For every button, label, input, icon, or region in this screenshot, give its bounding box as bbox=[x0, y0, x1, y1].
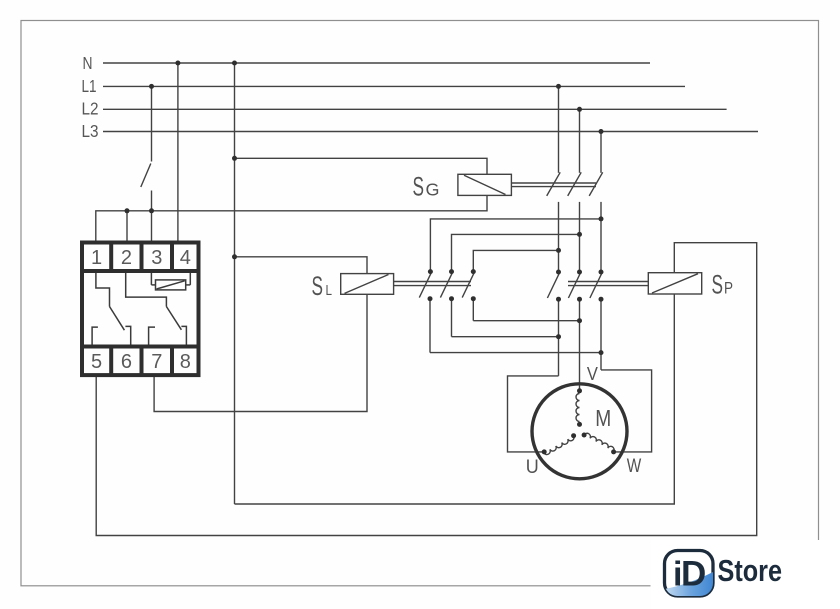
svg-text:U: U bbox=[526, 456, 539, 478]
svg-text:M: M bbox=[595, 405, 611, 431]
wire phase2 to SL contact 2 bbox=[452, 234, 580, 271]
relay contact B blade bbox=[166, 307, 181, 330]
logo background patch bbox=[651, 540, 840, 609]
svg-text:7: 7 bbox=[151, 351, 162, 373]
relay contact B pole from terminal 2 bbox=[126, 273, 167, 307]
contact SG1 bbox=[558, 86, 560, 172]
contactor coil SG bbox=[458, 174, 512, 195]
switch Q1 blade bbox=[141, 164, 151, 188]
contact SG2 bbox=[579, 109, 581, 173]
contact SG3 bbox=[600, 132, 602, 173]
wire phase3 to SL contact 1 bbox=[430, 219, 601, 272]
svg-text:2: 2 bbox=[121, 247, 132, 269]
svg-text:8: 8 bbox=[180, 351, 191, 373]
wire L1 to switch bbox=[151, 86, 153, 161]
wire N to terminal 4 bbox=[177, 63, 179, 241]
svg-text:L: L bbox=[326, 283, 333, 299]
wire SL1 to phase3 (cross connection) bbox=[430, 352, 601, 354]
wire phase1 to SL contact 3 bbox=[473, 250, 558, 271]
svg-text:3: 3 bbox=[151, 247, 162, 269]
svg-text:L1: L1 bbox=[82, 76, 97, 96]
svg-text:S: S bbox=[312, 271, 324, 301]
wire phase3 to motor W bbox=[601, 370, 652, 452]
motor winding W bbox=[584, 432, 615, 451]
svg-text:6: 6 bbox=[121, 351, 132, 373]
svg-text:N: N bbox=[83, 53, 93, 73]
wire N vertical bus bbox=[234, 63, 236, 504]
motor winding V bbox=[576, 394, 580, 422]
contact SP2 bbox=[568, 273, 580, 298]
linkage SG (double line) bbox=[511, 182, 596, 184]
svg-text:L3: L3 bbox=[82, 121, 99, 141]
wire terminal 2 riser bbox=[126, 211, 128, 241]
wire SL coil to relay terminal 7 bbox=[154, 294, 367, 411]
wire L1 bus bbox=[103, 85, 685, 87]
wire relay common bus to SG coil bbox=[96, 195, 487, 240]
linkage SL (double line) bbox=[394, 281, 471, 283]
logo iD badge bbox=[665, 551, 714, 597]
relay contact B fixed contact to terminal 8 bbox=[181, 326, 186, 344]
svg-text:L2: L2 bbox=[82, 99, 99, 119]
svg-text:1: 1 bbox=[91, 247, 102, 269]
svg-text:S: S bbox=[712, 270, 724, 300]
motor winding U bbox=[544, 436, 575, 456]
relay K1 body bbox=[82, 243, 199, 376]
contact SL3 bbox=[462, 272, 474, 297]
svg-text:Store: Store bbox=[718, 553, 783, 588]
svg-text:W: W bbox=[627, 455, 642, 477]
wire N bus bbox=[103, 62, 650, 64]
wire SG coil feed from N bus bbox=[235, 158, 488, 174]
wire phase1 to motor U bbox=[508, 376, 559, 452]
wire SP coil to N bus bbox=[235, 294, 675, 504]
svg-text:S: S bbox=[413, 171, 425, 201]
contact SP3 bbox=[590, 273, 602, 298]
relay coil K1 bbox=[156, 280, 186, 290]
svg-text:4: 4 bbox=[180, 247, 191, 269]
linkage SP (double line) bbox=[568, 281, 648, 283]
motor M1 circle bbox=[532, 384, 627, 479]
wire L3 bus bbox=[103, 131, 758, 133]
svg-text:P: P bbox=[724, 278, 733, 297]
wire SP coil to relay terminal 5 bbox=[96, 243, 757, 536]
contact SP1 bbox=[547, 273, 559, 298]
wire L2 bus bbox=[103, 108, 727, 110]
relay contact A fixed contact to terminal 6 bbox=[125, 326, 130, 344]
wire SL2 to phase1 (cross connection) bbox=[452, 336, 559, 338]
relay contact A pole from terminal 1 bbox=[96, 273, 110, 307]
contactor coil SP bbox=[648, 273, 701, 294]
contact SL2 bbox=[440, 272, 452, 297]
svg-text:D: D bbox=[681, 555, 706, 594]
wire switch to terminal 3 bbox=[151, 191, 153, 241]
svg-text:V: V bbox=[587, 364, 598, 384]
contact SL1 bbox=[419, 272, 431, 297]
svg-text:5: 5 bbox=[91, 351, 102, 373]
relay contact A fixed contact to terminal 5 bbox=[92, 327, 98, 344]
relay contact A blade bbox=[110, 307, 125, 331]
wire N bus to SL coil bbox=[235, 257, 368, 274]
svg-text:G: G bbox=[426, 179, 440, 199]
contactor coil SL bbox=[341, 274, 394, 295]
relay contact B fixed contact to terminal 7 bbox=[149, 327, 155, 344]
wire SL3 to phase2 (cross connection) bbox=[473, 320, 579, 322]
